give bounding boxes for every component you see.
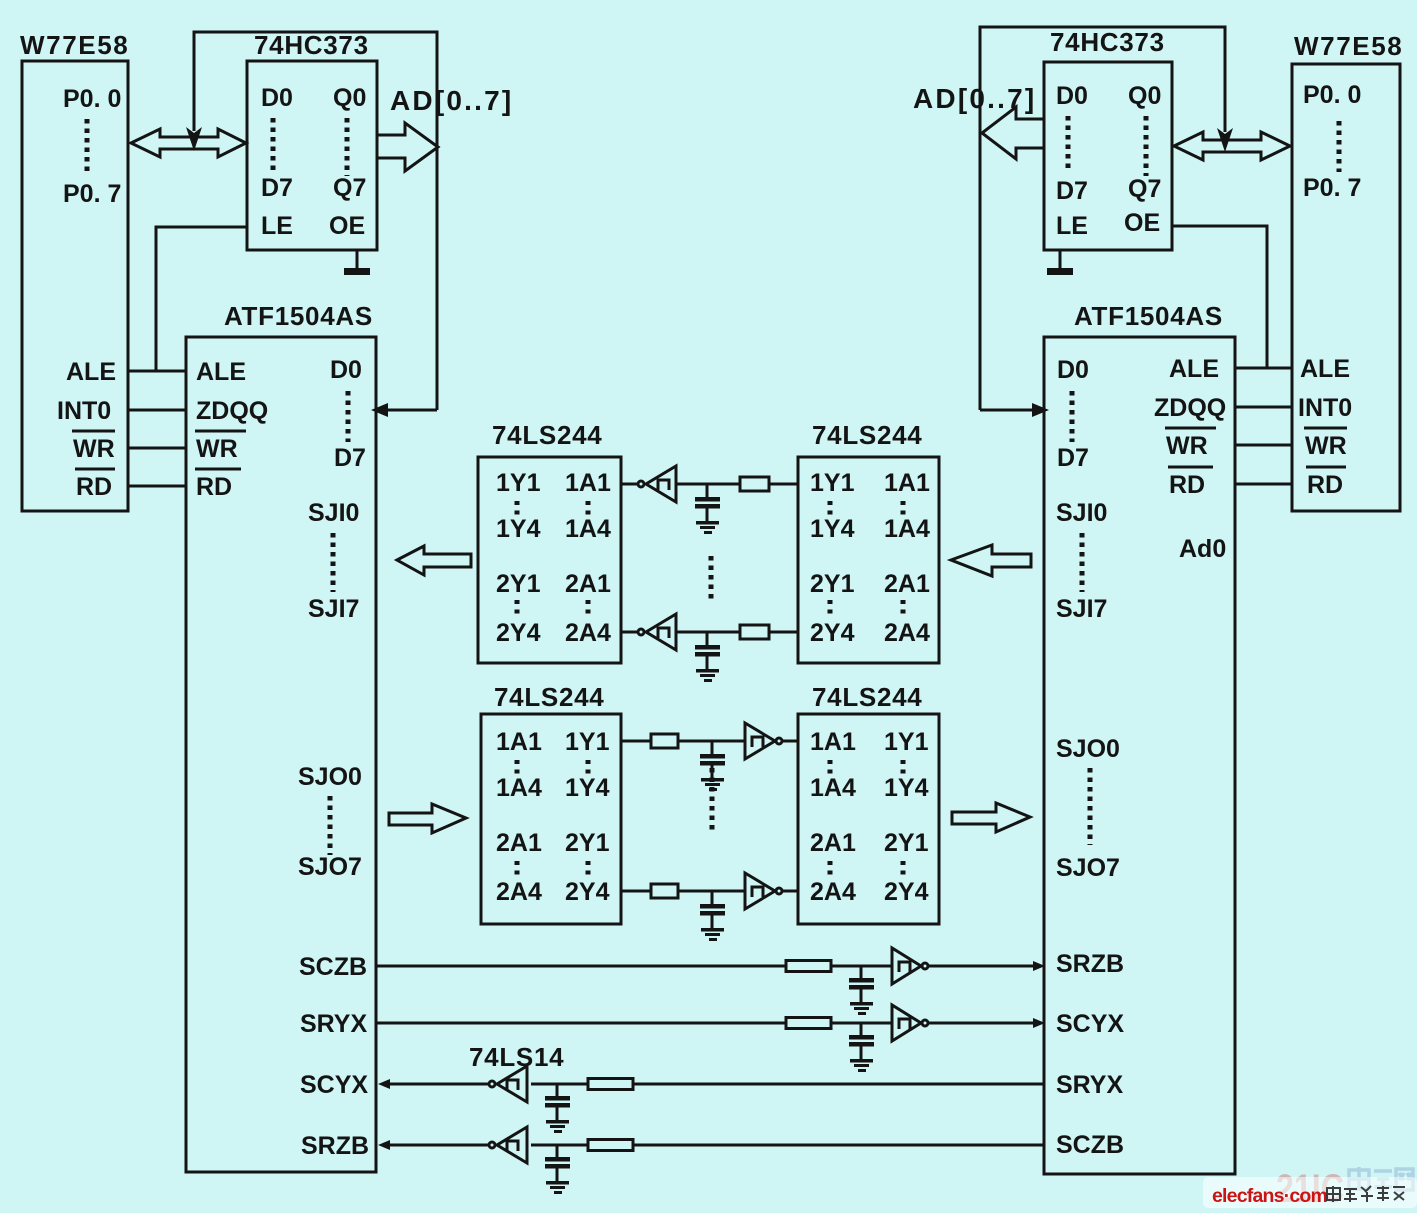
pin 2A1 lower-right (810, 829, 856, 857)
svg-text:RD: RD (76, 473, 112, 501)
pin WR left CPLD (195, 431, 246, 463)
pin WR right CPLD (1165, 428, 1216, 460)
svg-text:SCYX: SCYX (1056, 1010, 1124, 1038)
svg-text:ATF1504AS: ATF1504AS (224, 301, 373, 331)
svg-text:1A4: 1A4 (496, 774, 542, 802)
pin Q0 latch left (333, 84, 366, 112)
svg-text:RD: RD (1307, 471, 1343, 499)
resistor SRYX row (786, 1018, 831, 1029)
pin OE latch left (329, 212, 365, 240)
wire SCZB to right CPLD (929, 965, 1034, 968)
pin D7 latch right (1056, 177, 1088, 205)
pin D7 latch left (261, 174, 293, 202)
node arrow into port bus right (1217, 128, 1233, 152)
svg-text:2Y4: 2Y4 (496, 619, 541, 647)
svg-text:D0: D0 (330, 356, 362, 384)
node Q dots latch left (345, 118, 350, 176)
bus arrow AD out right latch (982, 107, 1044, 159)
svg-text:1A1: 1A1 (810, 728, 856, 756)
svg-text:2A1: 2A1 (884, 570, 930, 598)
pin 1Y1 lower-right (884, 728, 929, 756)
wire row1 lower right stub (783, 740, 798, 743)
pin 2Y1 lower-left (565, 829, 610, 857)
svg-text:2A4: 2A4 (810, 878, 856, 906)
pin SCYX left CPLD (300, 1071, 368, 1099)
node arrowhead SCYX input right (1033, 1018, 1045, 1028)
wire row1 lower mid (678, 740, 745, 743)
pin 1Y1 upper-left (496, 469, 541, 497)
node D dots left CPLD (346, 391, 351, 442)
svg-text:Ad0: Ad0 (1179, 535, 1226, 563)
pin SRZB left CPLD (301, 1132, 369, 1160)
ground SCYX row (546, 1120, 569, 1133)
wire row4 upper right stub (769, 631, 798, 634)
wire SCYX long right (633, 1083, 1044, 1086)
pin SJO7 right CPLD (1056, 854, 1120, 882)
svg-text:Q7: Q7 (1128, 175, 1161, 203)
pin SJO0 left CPLD (298, 763, 362, 791)
pin 1A4 lower-right (810, 774, 856, 802)
svg-text:INT0: INT0 (57, 397, 111, 425)
wire ZDQQ to INT0 right (1235, 406, 1292, 409)
label 74LS244 upper-right (812, 420, 922, 450)
watermark elecfans.com (1212, 1185, 1327, 1207)
pin 2A4 upper-right (884, 619, 930, 647)
pin P0.7 right (1303, 174, 1361, 202)
svg-text:1A4: 1A4 (884, 515, 930, 543)
pin 1A4 upper-right (884, 515, 930, 543)
svg-text:ALE: ALE (196, 358, 246, 386)
IC ATF1504AS right box (1044, 337, 1235, 1174)
wire SRYX long left (376, 1022, 786, 1025)
label W77E58 right (1294, 31, 1403, 61)
svg-text:1A4: 1A4 (810, 774, 856, 802)
node colon dots lower-right A2 (828, 861, 833, 879)
svg-text:74LS244: 74LS244 (812, 682, 922, 712)
wire ALE right (1235, 367, 1292, 370)
node colon dots lower-right Y2 (901, 861, 906, 879)
pin D0 latch right (1056, 82, 1088, 110)
pin 2Y4 upper-right (810, 619, 855, 647)
pin SRYX left CPLD (300, 1010, 367, 1038)
ground SRZB row (546, 1181, 569, 1194)
node arrowhead SRZB input left (378, 1140, 390, 1150)
watermark band (1203, 1177, 1417, 1208)
svg-text:LE: LE (261, 212, 293, 240)
node arrowhead D input right CPLD (1032, 403, 1049, 417)
pin INT0 left MCU (57, 397, 111, 425)
svg-text:Q0: Q0 (333, 84, 366, 112)
pin LE latch left (261, 212, 293, 240)
wire SCZB long left (376, 965, 786, 968)
wire row4 lower channel left stub (621, 890, 651, 893)
svg-text:OE: OE (1124, 209, 1160, 237)
node dots lower channel middle (710, 768, 715, 830)
node colon dots upper-right Y2 (828, 600, 833, 618)
wire RD left (128, 485, 186, 488)
pin 2Y1 upper-right (810, 570, 855, 598)
capacitor SCZB row (849, 966, 874, 1002)
svg-text:SJO7: SJO7 (1056, 854, 1120, 882)
pin Q0 latch right (1128, 82, 1161, 110)
IC W77E58 right box (1292, 64, 1400, 511)
pin 1Y4 lower-left (565, 774, 610, 802)
wire row1 upper mid (676, 483, 740, 486)
label 74LS14 (469, 1042, 564, 1072)
pin D0 left CPLD (330, 356, 362, 384)
wire RD right (1235, 483, 1292, 486)
svg-text:2Y4: 2Y4 (565, 878, 610, 906)
svg-text:D0: D0 (261, 84, 293, 112)
resistor SRZB row (588, 1140, 633, 1151)
wire SRZB to left CPLD (390, 1144, 488, 1147)
svg-text:2Y4: 2Y4 (884, 878, 929, 906)
pin RD left CPLD (195, 469, 241, 501)
svg-text:1Y4: 1Y4 (884, 774, 929, 802)
capacitor SRZB row (545, 1145, 570, 1181)
label 74LS244 upper-left (492, 420, 602, 450)
pin 2Y4 lower-right (884, 878, 929, 906)
pin 2A1 upper-left (565, 570, 611, 598)
wire SCYX to left CPLD (390, 1083, 488, 1086)
ground under right 74HC373 (1047, 250, 1073, 275)
pin 1Y4 upper-left (496, 515, 541, 543)
pin ALE left CPLD (196, 358, 246, 386)
svg-text:1Y1: 1Y1 (496, 469, 541, 497)
svg-text:SJO7: SJO7 (298, 853, 362, 881)
bus arrow SJO right (952, 803, 1030, 832)
label ATF1504AS left (224, 301, 373, 331)
pin SRYX right CPLD (1056, 1071, 1123, 1099)
node colon dots lower-right Y (901, 760, 906, 778)
svg-text:AD[0..7]: AD[0..7] (913, 83, 1036, 114)
ground upper row1 (696, 521, 719, 534)
wire INT0 to ZDQQ left (128, 409, 186, 412)
inverter 74LS14 SRZB row (489, 1127, 527, 1163)
pin 2Y1 lower-right (884, 829, 929, 857)
wire row1 upper channel left stub (621, 483, 637, 486)
label W77E58 left (20, 30, 129, 60)
wire AD bus top right (980, 27, 1225, 410)
pin ZDQQ right CPLD (1154, 394, 1226, 422)
node colon dots lower-left A2 (515, 861, 520, 879)
pin D0 latch left (261, 84, 293, 112)
pin SJO0 right CPLD (1056, 735, 1120, 763)
pin 1Y4 upper-right (810, 515, 855, 543)
watermark dianziwang faded glyphs (1349, 1167, 1413, 1192)
IC ATF1504AS left box (186, 337, 376, 1172)
resistor upper row4 (740, 625, 769, 639)
inverter 74LS14 upper row1 (638, 466, 676, 502)
node Q dots latch right (1144, 116, 1149, 176)
node colon dots upper-left A2 (586, 600, 591, 618)
svg-text:OE: OE (329, 212, 365, 240)
pin 2A4 upper-left (565, 619, 611, 647)
pin RD right MCU (1306, 467, 1346, 499)
node SJO dots right CPLD (1088, 768, 1093, 845)
node colon dots upper-right A2 (901, 600, 906, 618)
resistor lower row1 (651, 734, 678, 748)
svg-text:SJO0: SJO0 (1056, 735, 1120, 763)
svg-text:1Y1: 1Y1 (884, 728, 929, 756)
pin WR right MCU (1304, 428, 1347, 460)
pin ALE left MCU (66, 358, 116, 386)
svg-text:1A1: 1A1 (884, 469, 930, 497)
svg-text:D0: D0 (1057, 356, 1089, 384)
pin D7 right CPLD (1057, 444, 1089, 472)
wire AD bus top left (194, 32, 437, 410)
node dots upper channel middle (709, 556, 714, 600)
IC 74HC373 right box (1044, 62, 1172, 250)
pin WR left MCU (72, 431, 115, 463)
pin 1A1 lower-left (496, 728, 542, 756)
wire row4 upper mid (676, 631, 740, 634)
svg-text:2A4: 2A4 (496, 878, 542, 906)
svg-text:RD: RD (1169, 471, 1205, 499)
wire OE to ALE net right (1172, 226, 1267, 368)
svg-text:ALE: ALE (1300, 355, 1350, 383)
svg-text:1Y1: 1Y1 (565, 728, 610, 756)
svg-text:74LS244: 74LS244 (812, 420, 922, 450)
pin Q7 latch right (1128, 175, 1161, 203)
svg-text:ALE: ALE (66, 358, 116, 386)
pin SJI7 right CPLD (1056, 595, 1107, 623)
svg-text:SCYX: SCYX (300, 1071, 368, 1099)
svg-text:W77E58: W77E58 (20, 30, 129, 60)
svg-text:2A1: 2A1 (810, 829, 856, 857)
label 74LS244 lower-left (494, 682, 604, 712)
pin OE latch right (1124, 209, 1160, 237)
wire SCYX mid (531, 1083, 588, 1086)
node colon dots upper-right Y (828, 501, 833, 519)
pin SJO7 left CPLD (298, 853, 362, 881)
resistor SCYX row (588, 1079, 633, 1090)
svg-text:ZDQQ: ZDQQ (1154, 394, 1226, 422)
svg-text:2Y1: 2Y1 (565, 829, 610, 857)
node arrow into port bus left (186, 127, 202, 151)
pin 2A1 lower-left (496, 829, 542, 857)
pin ZDQQ left CPLD (196, 397, 268, 425)
pin 2A4 lower-right (810, 878, 856, 906)
pin 1Y1 upper-right (810, 469, 855, 497)
wire SRZB long right (633, 1144, 1044, 1147)
pin Q7 latch left (333, 174, 366, 202)
wire SRYX to right CPLD (929, 1022, 1034, 1025)
pin 1A1 upper-right (884, 469, 930, 497)
wire AD to D input right CPLD (980, 409, 1032, 412)
pin SRZB right CPLD (1056, 950, 1124, 978)
resistor upper row1 (740, 477, 769, 491)
node SJI dots left CPLD (331, 533, 336, 592)
svg-text:2Y1: 2Y1 (496, 570, 541, 598)
node P0 dots left (85, 119, 90, 172)
pin SJI0 right CPLD (1056, 499, 1107, 527)
svg-text:1Y4: 1Y4 (496, 515, 541, 543)
capacitor lower row1 (700, 741, 725, 778)
label AD[0..7] left (390, 85, 513, 116)
node arrowhead D input left CPLD (371, 403, 388, 417)
watermark chinese glyphs dark (1327, 1186, 1405, 1202)
pin 2A4 lower-left (496, 878, 542, 906)
resistor lower row4 (651, 884, 678, 898)
wire AD to D input left CPLD (388, 409, 437, 412)
svg-text:SJI7: SJI7 (1056, 595, 1107, 623)
pin 2Y1 upper-left (496, 570, 541, 598)
bus arrow SJO left (389, 804, 466, 833)
pin 1A1 upper-left (565, 469, 611, 497)
svg-text:1A1: 1A1 (565, 469, 611, 497)
ground lower row4 (701, 928, 724, 941)
capacitor lower row4 (700, 891, 725, 928)
svg-text:SJO0: SJO0 (298, 763, 362, 791)
ground SCZB row (850, 1002, 873, 1015)
svg-text:P0. 7: P0. 7 (63, 180, 121, 208)
wire row4 lower mid (678, 890, 745, 893)
node arrowhead SRZB input right (1033, 961, 1045, 971)
wire row4 lower right stub (783, 890, 798, 893)
svg-text:AD[0..7]: AD[0..7] (390, 85, 513, 116)
svg-text:2A4: 2A4 (884, 619, 930, 647)
svg-text:D7: D7 (1057, 444, 1089, 472)
svg-text:ZDQQ: ZDQQ (196, 397, 268, 425)
svg-text:SRZB: SRZB (1056, 950, 1124, 978)
pin 1A1 lower-right (810, 728, 856, 756)
pin RD right CPLD (1168, 467, 1213, 499)
IC 74LS244 upper-left box (478, 457, 621, 663)
pin SCYX right CPLD (1056, 1010, 1124, 1038)
svg-text:P0. 0: P0. 0 (63, 85, 121, 113)
node colon dots lower-right A (828, 760, 833, 778)
node arrowhead SCYX input left (378, 1079, 390, 1089)
node D dots right CPLD (1070, 391, 1075, 442)
svg-text:SRYX: SRYX (1056, 1071, 1123, 1099)
svg-text:D7: D7 (261, 174, 293, 202)
bus arrow SJI left (397, 546, 471, 575)
node colon dots lower-left A (515, 760, 520, 778)
IC 74HC373 left box (247, 61, 377, 250)
svg-text:74HC373: 74HC373 (254, 30, 369, 60)
node colon dots upper-left A (586, 501, 591, 519)
svg-text:elecfans·com: elecfans·com (1212, 1185, 1327, 1207)
pin 1Y4 lower-right (884, 774, 929, 802)
svg-text:1A1: 1A1 (496, 728, 542, 756)
ground lower row1 (701, 778, 724, 791)
ground SRYX row (850, 1059, 873, 1072)
pin RD left MCU (75, 469, 115, 501)
pin SCZB right CPLD (1056, 1131, 1124, 1159)
IC 74LS244 upper-right box (798, 457, 939, 663)
node colon dots lower-left Y2 (586, 861, 591, 879)
ground under left 74HC373 (344, 250, 370, 275)
inverter 74LS14 lower row1 (745, 723, 782, 759)
svg-text:2Y1: 2Y1 (810, 570, 855, 598)
pin INT0 right MCU (1298, 394, 1352, 422)
svg-text:2Y1: 2Y1 (884, 829, 929, 857)
wire ALE left (128, 370, 186, 373)
svg-text:74LS244: 74LS244 (494, 682, 604, 712)
svg-text:INT0: INT0 (1298, 394, 1352, 422)
node colon dots upper-left Y2 (515, 600, 520, 618)
wire row1 lower channel left stub (621, 740, 651, 743)
wire SRZB mid (531, 1144, 588, 1147)
watermark 21IC faded (1276, 1167, 1344, 1211)
svg-text:74LS244: 74LS244 (492, 420, 602, 450)
svg-text:SRYX: SRYX (300, 1010, 367, 1038)
svg-text:1Y4: 1Y4 (565, 774, 610, 802)
inverter 74LS14 lower row4 (745, 873, 782, 909)
svg-text:74HC373: 74HC373 (1050, 27, 1165, 57)
svg-text:SCZB: SCZB (299, 953, 367, 981)
wire SRYX mid (831, 1022, 892, 1025)
pin 1A4 lower-left (496, 774, 542, 802)
bus arrow SJI right (951, 545, 1031, 576)
pin SCZB left CPLD (299, 953, 367, 981)
pin D0 right CPLD (1057, 356, 1089, 384)
svg-text:WR: WR (1166, 432, 1208, 460)
node P0 dots right (1337, 121, 1342, 172)
pin LE latch right (1056, 212, 1088, 240)
svg-text:P0. 0: P0. 0 (1303, 81, 1361, 109)
node colon dots upper-left Y (515, 501, 520, 519)
svg-text:1Y4: 1Y4 (810, 515, 855, 543)
wire row4 upper channel left stub (621, 631, 637, 634)
svg-text:2Y4: 2Y4 (810, 619, 855, 647)
svg-text:2A1: 2A1 (496, 829, 542, 857)
label 74HC373 right (1050, 27, 1165, 57)
bidirectional bus arrow left (131, 129, 246, 157)
inverter 74LS14 upper row4 (638, 614, 676, 650)
node SJI dots right CPLD (1080, 533, 1085, 592)
svg-text:2A1: 2A1 (565, 570, 611, 598)
label 74HC373 left (254, 30, 369, 60)
bidirectional bus arrow right (1174, 132, 1290, 160)
pin 2Y4 upper-left (496, 619, 541, 647)
label AD[0..7] right (913, 83, 1036, 114)
pin P0.7 left (63, 180, 121, 208)
inverter 74LS14 SCZB row (892, 948, 928, 984)
svg-text:Q7: Q7 (333, 174, 366, 202)
svg-text:WR: WR (196, 435, 238, 463)
svg-text:SJI7: SJI7 (308, 595, 359, 623)
inverter 74LS14 SRYX row (892, 1005, 928, 1041)
IC 74LS244 lower-left box (481, 714, 621, 924)
svg-text:ALE: ALE (1169, 355, 1219, 383)
svg-text:WR: WR (73, 435, 115, 463)
svg-text:D7: D7 (334, 444, 366, 472)
pin Ad0 right CPLD (1179, 535, 1226, 563)
pin ALE right CPLD (1169, 355, 1219, 383)
svg-text:SJI0: SJI0 (1056, 499, 1107, 527)
svg-text:D0: D0 (1056, 82, 1088, 110)
node colon dots lower-left Y (586, 760, 591, 778)
node D dots latch right (1066, 116, 1071, 170)
wire WR right (1235, 444, 1292, 447)
node SJO dots left CPLD (328, 796, 333, 855)
bus arrow AD out left latch (377, 123, 438, 171)
pin 2A1 upper-right (884, 570, 930, 598)
pin 1A4 upper-left (565, 515, 611, 543)
capacitor upper row1 (695, 484, 720, 521)
pin ALE right MCU (1300, 355, 1350, 383)
svg-text:Q0: Q0 (1128, 82, 1161, 110)
svg-text:LE: LE (1056, 212, 1088, 240)
pin SJI7 left CPLD (308, 595, 359, 623)
svg-text:2A4: 2A4 (565, 619, 611, 647)
IC W77E58 left box (22, 61, 128, 511)
wire row1 upper right stub (769, 483, 798, 486)
svg-text:RD: RD (196, 473, 232, 501)
svg-text:SJI0: SJI0 (308, 499, 359, 527)
